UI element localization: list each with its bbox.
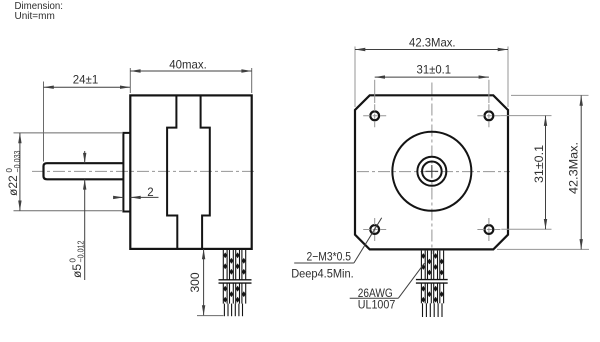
dimension 40max. (body length)	[130, 57, 251, 93]
dimension ø22 0/-0.033 (pilot boss diameter)	[5, 133, 122, 211]
dimension 2 (pilot boss height)	[113, 187, 158, 199]
svg-text:24±1: 24±1	[73, 73, 99, 87]
shaft (side view)	[44, 163, 124, 179]
svg-text:−0.012: −0.012	[77, 240, 86, 262]
pilot boss circle ø22 (front view)	[392, 132, 471, 211]
shaft center cross	[426, 165, 439, 178]
wire tie band (front view)	[416, 280, 448, 284]
bearing boss circle (front view)	[417, 157, 446, 186]
body section step line (left)	[167, 95, 177, 249]
dimension 42.3Max. (faceplate width)	[355, 36, 508, 107]
dimension 31±0.1 (hole spacing horizontal)	[375, 63, 489, 103]
lead wire bundle (side view)	[223, 250, 246, 304]
wire ends (side view)	[224, 304, 242, 317]
mounting hole M3 (bottom-left)	[363, 218, 386, 241]
svg-text:UL1007: UL1007	[358, 299, 396, 311]
svg-text:40max.: 40max.	[169, 57, 207, 71]
mounting hole M3 (top-left)	[363, 104, 386, 127]
dimension 31±0.1 (hole spacing vertical)	[501, 116, 552, 230]
dimension ø5 0/-0.012 (shaft diameter)	[69, 151, 87, 280]
centerline: front-view vertical axis	[431, 83, 433, 255]
centerline: front-view horizontal axis	[357, 171, 510, 173]
svg-text:42.3Max.: 42.3Max.	[409, 36, 456, 50]
pilot boss (side view)	[123, 133, 130, 212]
svg-text:31±0.1: 31±0.1	[532, 145, 546, 183]
wire tie band (side view)	[219, 280, 252, 283]
svg-text:26AWG: 26AWG	[358, 288, 393, 300]
svg-text:ø22: ø22	[6, 175, 20, 196]
centerline: side-view horizontal axis	[32, 170, 256, 172]
motor body (side view outline)	[130, 95, 251, 249]
leader: lead wire callout	[350, 263, 425, 298]
svg-text:ø5: ø5	[70, 264, 84, 278]
svg-text:Deep4.5Min.: Deep4.5Min.	[291, 266, 354, 280]
mounting hole M3 (bottom-right)	[477, 218, 500, 241]
dimension 300 (lead wire length)	[188, 249, 224, 316]
svg-text:300: 300	[188, 272, 202, 292]
lead wire bundle (front view)	[421, 251, 444, 304]
leader: mounting hole callout	[294, 218, 382, 263]
label 2-M3*0.5 Deep4.5Min.	[291, 250, 354, 281]
svg-text:Unit=mm: Unit=mm	[15, 11, 55, 22]
wire ends (front view)	[423, 303, 443, 317]
svg-text:31±0.1: 31±0.1	[417, 63, 452, 77]
note: drawing units	[15, 1, 64, 22]
label 26AWG UL1007	[358, 288, 396, 311]
body section step line (right)	[201, 95, 210, 249]
mounting hole M3 (top-right)	[477, 104, 500, 127]
motor faceplate outline (front view, chamfered square)	[355, 95, 508, 249]
dimension 42.3Max. (faceplate height)	[497, 95, 589, 249]
shaft circle ø5 (front view)	[422, 162, 442, 182]
svg-text:42.3Max.: 42.3Max.	[567, 142, 581, 194]
svg-text:−0.033: −0.033	[13, 150, 22, 172]
dimension 24±1 (shaft length)	[44, 73, 131, 162]
svg-text:2: 2	[147, 187, 153, 199]
svg-text:2−M3*0.5: 2−M3*0.5	[307, 250, 352, 264]
